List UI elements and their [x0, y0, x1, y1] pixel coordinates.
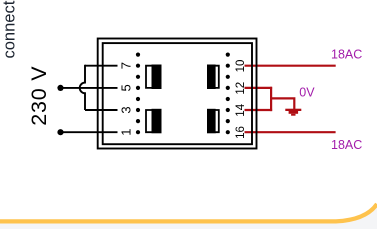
- svg-text:3: 3: [119, 106, 134, 113]
- wire pin 10 to 18AC: [245, 65, 336, 67]
- secondary winding W3 (pins 10-12): [207, 65, 219, 90]
- svg-text:18AC: 18AC: [331, 48, 362, 62]
- svg-text:5: 5: [119, 84, 134, 91]
- junction dot on pin 5 lead (230 V live): [57, 85, 63, 91]
- link pins 12-14: [270, 87, 272, 111]
- ground symbol: [285, 109, 301, 116]
- transformer body outer rectangle: [98, 39, 257, 149]
- junction dot on pin 1 lead (230 V neutral): [57, 129, 63, 135]
- svg-text:18AC: 18AC: [331, 138, 362, 152]
- wire pin 16 to 18AC: [245, 131, 336, 133]
- wire pin 12 to link: [245, 87, 273, 89]
- series link pins 7-3 with hop over pin 5 wire: [80, 65, 85, 110]
- wire centre tap to ground: [271, 98, 294, 109]
- pin 3 lead: [85, 109, 118, 111]
- svg-text:connect: connect: [0, 0, 18, 58]
- primary winding W2 (pins 3-1): [146, 109, 162, 134]
- left pin dots column: [136, 53, 140, 135]
- svg-text:7: 7: [119, 62, 134, 69]
- svg-text:0V: 0V: [299, 85, 315, 99]
- right pin dots column: [226, 53, 230, 135]
- svg-text:1: 1: [119, 129, 134, 136]
- wire pin 14 to link: [245, 109, 273, 111]
- primary winding W1 (pins 7-5): [146, 65, 162, 90]
- pin 1 lead: [61, 131, 118, 133]
- svg-text:230 V: 230 V: [27, 66, 51, 126]
- pin 5 lead: [61, 87, 118, 89]
- secondary winding W4 (pins 14-16): [207, 109, 219, 134]
- transformer body inner rectangle: [103, 43, 252, 144]
- pin 7 lead: [85, 65, 118, 67]
